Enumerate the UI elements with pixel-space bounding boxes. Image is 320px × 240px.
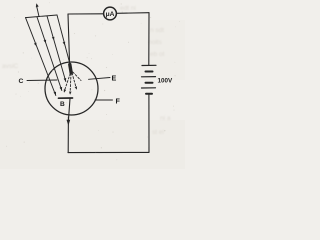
electron path 3 (dashed)	[72, 73, 76, 89]
svg-text:st el: st el	[152, 129, 164, 136]
arrowhead electron path 2	[69, 92, 72, 95]
paper speckle (decorative)	[6, 2, 180, 160]
electron path 1 (dashed)	[64, 74, 70, 92]
label leader E	[89, 78, 111, 80]
wire: anode lead down into tube	[68, 14, 70, 64]
wire: left lower vertical from tube to bottom	[67, 117, 69, 153]
svg-text:noits: noits	[148, 39, 162, 46]
wire: collector lead inside tube	[68, 99, 70, 122]
wire: top left horizontal to meter	[68, 13, 103, 15]
arrowhead at end of ray 2	[60, 87, 63, 91]
faint bleed-through text (decorative)	[2, 5, 171, 136]
glass envelope F of photocell	[45, 62, 98, 115]
light ray 4	[57, 15, 70, 64]
svg-text:avsiC: avsiC	[2, 63, 19, 70]
battery long plate 2	[142, 76, 156, 78]
light ray 2	[37, 17, 62, 91]
battery short plate 3	[146, 93, 152, 95]
svg-text:eb ot: eb ot	[150, 51, 165, 58]
arrowhead of up light arrow	[36, 3, 39, 7]
label leader C	[27, 79, 57, 82]
microammeter M1 (uA)	[104, 7, 117, 20]
light direction arrow (up)	[37, 6, 39, 17]
electron path 2 (dashed)	[69, 74, 72, 94]
light beam top line	[26, 15, 58, 18]
electron path 4 (dashed short)	[73, 72, 81, 81]
light ray 3	[47, 16, 66, 82]
battery short plate 2	[146, 82, 153, 84]
svg-text:μA: μA	[106, 11, 115, 18]
arrowhead at end of ray 3	[64, 78, 67, 82]
arrowhead current direction on left wire	[67, 120, 71, 126]
svg-text:C: C	[19, 78, 24, 85]
arrowhead on ray 3	[52, 37, 55, 41]
svg-text:edt ni: edt ni	[120, 5, 136, 12]
label leader F	[95, 99, 113, 101]
svg-text:n sdt: n sdt	[150, 27, 164, 34]
wire: right side lower vertical	[148, 94, 150, 153]
battery B1 100V: long plate 1	[142, 64, 156, 66]
svg-text:F: F	[116, 96, 121, 105]
svg-text:ni a: ni a	[160, 115, 171, 122]
battery short plate 1	[146, 71, 153, 73]
arrowhead at end of ray 1	[54, 92, 57, 96]
wire: right side upper vertical	[148, 13, 150, 65]
paper background	[0, 0, 185, 169]
svg-text:E: E	[112, 73, 117, 82]
arrowhead on ray 4	[63, 42, 66, 46]
anode plate E (dark blob)	[70, 65, 71, 74]
arrowhead on ray 2	[44, 40, 47, 44]
collector plate B bar	[59, 97, 73, 99]
arrowhead electron path 3	[75, 86, 77, 89]
battery long plate 3	[142, 87, 156, 89]
svg-text:100V: 100V	[158, 77, 174, 84]
svg-text:B: B	[60, 101, 65, 108]
arrowhead on ray 1	[34, 43, 37, 47]
arrowhead electron path 1	[64, 89, 66, 93]
wire: bottom horizontal	[68, 151, 149, 153]
light ray 1	[26, 18, 56, 96]
wire: meter to top-right corner	[117, 12, 149, 15]
